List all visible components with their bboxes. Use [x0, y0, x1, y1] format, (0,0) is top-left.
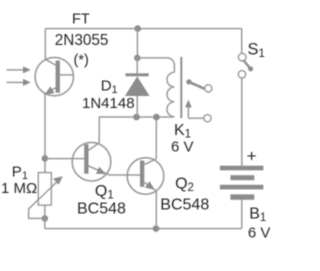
Q2 collector diagonal	[144, 159, 156, 165]
svg-text:BC548: BC548	[77, 201, 126, 218]
wire left drop from top rail to FT collector	[44, 29, 46, 60]
node junction dot P1 top / Q1 base	[42, 155, 49, 162]
phototransistor FT circle	[35, 57, 73, 95]
wire D1 top node to cathode bar	[136, 58, 138, 74]
wire mid horizontal (D1/coil bottom to Q1 collector)	[99, 116, 167, 118]
battery B1 plate 3 long	[220, 185, 264, 190]
node junction dot Q2 collector	[153, 114, 160, 121]
wire bottom rail	[45, 228, 242, 230]
wire Q2 emitter down	[155, 191, 157, 229]
wire relay contact bottom lead	[188, 117, 203, 119]
svg-text:D1: D1	[101, 78, 118, 97]
wire FT emitter down to P1	[44, 94, 46, 173]
light arrow 2	[7, 81, 24, 83]
wire P1 bottom to rail	[44, 205, 46, 229]
wire Q1 collector up	[98, 117, 100, 143]
relay contact bottom terminal circle	[204, 115, 211, 122]
svg-text:6 V: 6 V	[171, 139, 194, 156]
node junction dot D1 top	[134, 55, 141, 62]
svg-text:2N3055: 2N3055	[55, 32, 109, 49]
wire coil top lead	[137, 58, 174, 72]
battery B1 plate 2 short	[230, 175, 254, 180]
Q2 emitter diagonal	[144, 182, 156, 191]
transistor Q2 circle	[127, 158, 164, 195]
svg-text:6 V: 6 V	[248, 225, 271, 242]
wire Q1 base lead	[45, 158, 84, 160]
FT collector diagonal	[45, 59, 56, 65]
switch S1 top terminal circle	[238, 53, 246, 61]
wire coil bottom to mid wire	[167, 116, 174, 118]
Q1 emitter diagonal	[89, 166, 110, 175]
FT emitter arrowhead	[45, 86, 55, 94]
P1 wiper arrowhead	[53, 176, 63, 184]
Q1 collector diagonal	[89, 143, 100, 150]
svg-text:Q1: Q1	[95, 183, 114, 202]
svg-text:+: +	[247, 147, 257, 166]
svg-text:S1: S1	[248, 41, 265, 61]
wire right drop from top rail to S1	[241, 29, 243, 54]
potentiometer P1 box	[38, 173, 51, 206]
relay contact top terminal circle	[205, 85, 212, 92]
relay K1 coil loops	[167, 72, 174, 117]
P1 wiper arrow shaft	[29, 182, 57, 218]
Q2 emitter arrowhead	[145, 181, 155, 190]
svg-text:BC548: BC548	[160, 197, 209, 214]
wire D1 anode down	[136, 96, 138, 117]
Q1 emitter arrowhead	[96, 167, 106, 175]
battery B1 plate 4 short	[230, 194, 254, 199]
svg-text:B1: B1	[249, 205, 266, 224]
switch S1 bottom terminal circle	[238, 71, 245, 78]
node junction dot bottom rail / Q2 emitter	[153, 225, 160, 232]
FT base lead (to right, open)	[60, 74, 74, 76]
svg-text:1N4148: 1N4148	[82, 95, 135, 112]
svg-text:1 MΩ: 1 MΩ	[1, 180, 37, 197]
svg-text:Q2: Q2	[175, 175, 194, 194]
diode D1 cathode bar	[126, 73, 149, 76]
Q1 base bar	[84, 144, 88, 173]
FT base bar	[56, 61, 60, 93]
switch S1 lever	[244, 61, 251, 69]
battery B1 plate 1 long	[220, 166, 264, 171]
node junction dot P1 bottom	[42, 215, 49, 222]
wire S1 to battery	[241, 78, 243, 166]
transistor Q1 circle	[72, 142, 111, 181]
wire battery to bottom rail	[241, 200, 243, 229]
relay actuation arrow	[187, 106, 189, 118]
svg-text:(*): (*)	[74, 53, 89, 69]
FT emitter diagonal	[46, 87, 57, 93]
wire top rail	[45, 28, 241, 30]
light arrow 1	[7, 69, 24, 71]
node junction dot top rail / D1	[134, 25, 141, 32]
Q2 base bar	[140, 161, 144, 187]
node junction dot D1 bottom	[133, 114, 140, 121]
wire Q2 collector up	[155, 117, 157, 159]
relay contact movable arm	[189, 82, 204, 89]
wire Q1 emitter to Q2 base	[109, 174, 140, 176]
diode D1 triangle	[125, 76, 150, 96]
svg-text:FT: FT	[72, 11, 90, 27]
wire top rail down to D1 top node	[136, 29, 138, 58]
relay core bar	[180, 57, 182, 118]
